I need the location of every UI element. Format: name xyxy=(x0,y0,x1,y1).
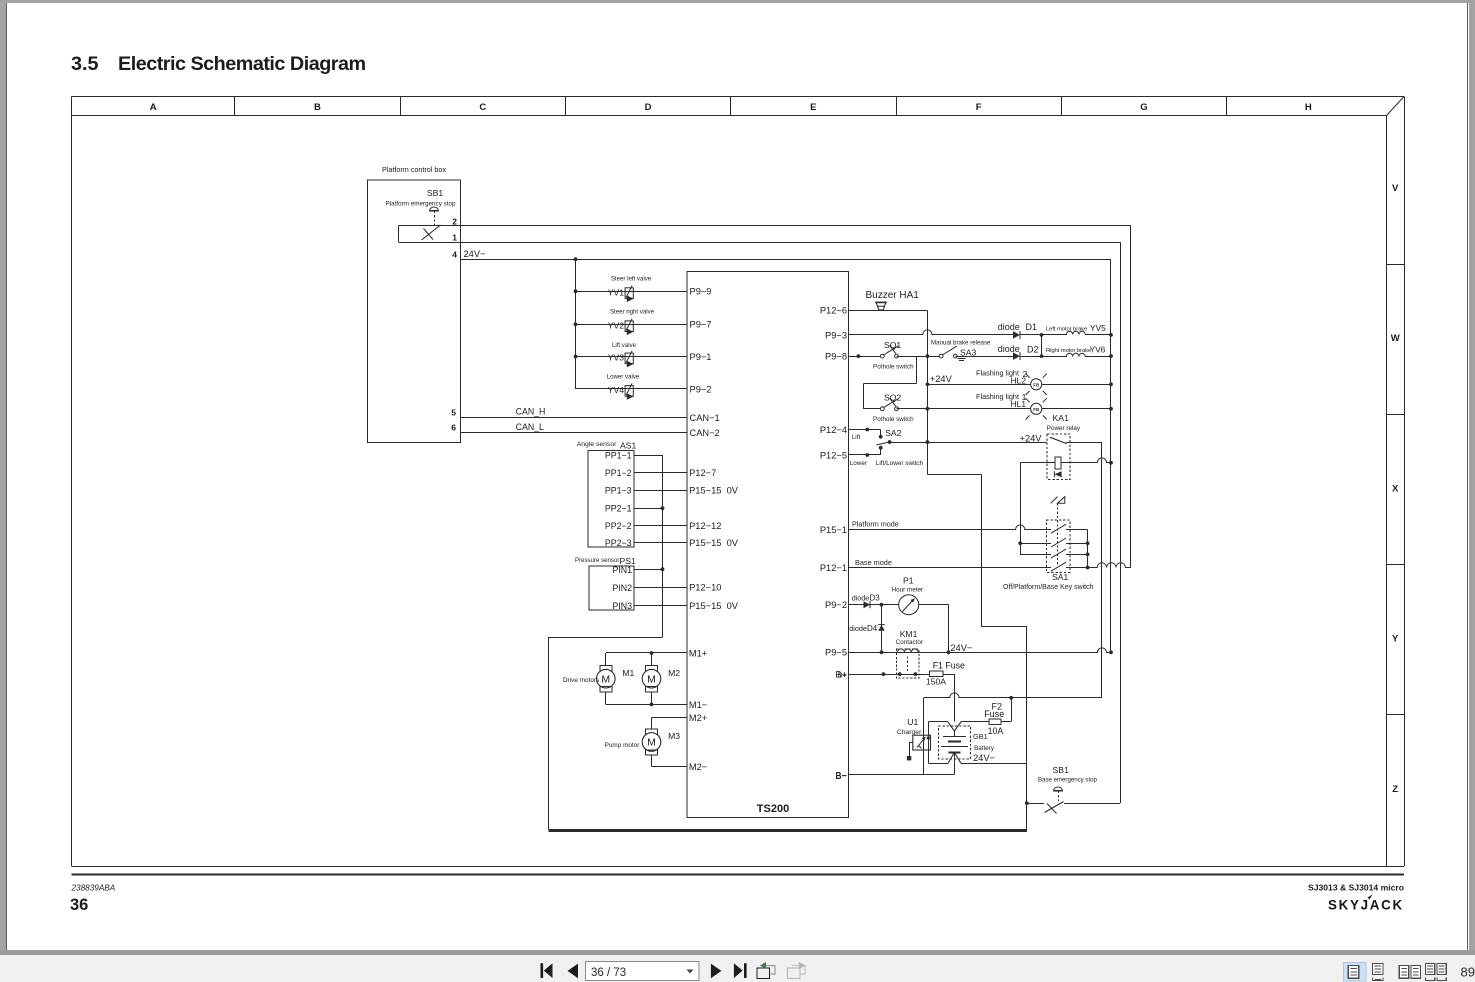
svg-text:36 / 73: 36 / 73 xyxy=(591,967,626,979)
svg-text:89: 89 xyxy=(1461,965,1475,980)
